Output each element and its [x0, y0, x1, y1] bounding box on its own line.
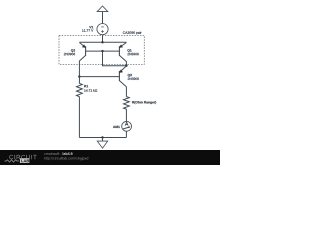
transistor Q3 [119, 66, 126, 87]
transistor Q1 [119, 43, 126, 62]
wire common base [86, 50, 120, 52]
junction Q3 base node [78, 75, 80, 77]
wire V1 to rail [102, 35, 104, 43]
label R2 value [132, 101, 156, 104]
wire Q3 base [79, 76, 119, 78]
wire Q1 collector to node A [125, 61, 127, 65]
logo resistor zigzag [5, 160, 20, 162]
label Q1 [127, 49, 131, 52]
wire R1 to bottom [78, 97, 80, 138]
wire Q3 collector to R2 [125, 87, 127, 97]
resistor R1 [77, 83, 83, 96]
junction rail center [101, 41, 103, 43]
logo CIRCUIT [9, 155, 36, 159]
ammeter AM1 [122, 121, 132, 131]
wire flag to V1 [102, 12, 104, 24]
wire emitter rail [79, 41, 126, 43]
wire R2 to ammeter [125, 109, 127, 121]
junction ground tap [101, 136, 103, 138]
watermark banner [0, 150, 220, 165]
dashed box CA3096 pair [59, 35, 144, 64]
logo LAB [20, 158, 29, 163]
ground [97, 138, 107, 149]
wire bottom [79, 137, 126, 139]
label CA3096 pair [123, 31, 142, 34]
power flag V+ [97, 6, 108, 12]
label R1 value [84, 85, 88, 87]
label Q3 [128, 74, 132, 77]
wire ammeter to bottom [125, 131, 127, 137]
wire Q2 collector down [78, 61, 80, 84]
junction base center [101, 50, 103, 52]
voltage source V1 [97, 24, 108, 35]
banner user text [44, 152, 61, 155]
transistor Q2 [79, 43, 86, 62]
wire base to node A [103, 51, 127, 66]
label AM1 [113, 126, 120, 128]
resistor R2 Ohm Ranger [124, 97, 130, 110]
label ammeter A [125, 122, 128, 126]
label V1 value [89, 26, 93, 28]
banner url text [44, 157, 88, 160]
junction node A [125, 65, 127, 67]
label Q2 [71, 49, 75, 52]
